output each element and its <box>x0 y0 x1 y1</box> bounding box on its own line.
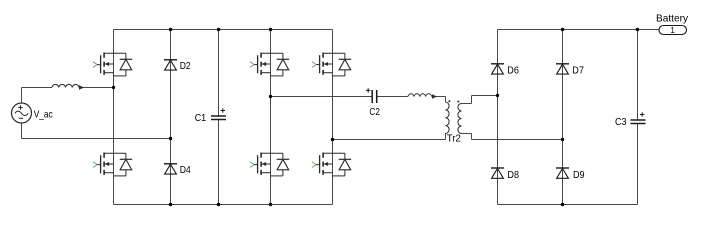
diode D9 <box>556 168 569 178</box>
wire: V_ac top lead <box>22 88 53 104</box>
svg-text:Battery: Battery <box>656 13 689 25</box>
node: H-bridge left leg top <box>269 28 272 31</box>
node: inductor to MOSFET midpoint <box>112 86 115 89</box>
wire: V_ac bottom lead to diode leg midpoint <box>22 123 171 139</box>
svg-text:D2: D2 <box>180 60 191 72</box>
wire: secondary top to rectifier left leg <box>462 96 498 104</box>
node: D9 bottom <box>561 203 564 206</box>
wire: inductor L1 to MOSFET leg <box>79 87 114 89</box>
svg-text:V_ac: V_ac <box>34 108 53 120</box>
battery port connector <box>659 26 687 35</box>
node: V_ac return to diode midpoint <box>169 137 172 140</box>
wire: C3 column upper <box>637 30 639 121</box>
wire: H-bridge right midpoint to primary bottom <box>333 133 446 140</box>
wire: secondary bottom to rectifier right leg <box>462 134 563 140</box>
svg-text:C2: C2 <box>369 106 380 118</box>
wire: input bridge top rail <box>114 29 333 31</box>
wire: C1 column upper <box>218 30 220 117</box>
svg-text:D9: D9 <box>573 169 585 181</box>
capacitor C3 <box>631 120 646 124</box>
svg-text:D8: D8 <box>507 169 519 181</box>
transformer Tr2 primary winding <box>445 102 449 133</box>
diode D7 <box>556 64 569 74</box>
node: D2 top <box>169 28 172 31</box>
MOSFET M1 (input leg top) <box>93 53 132 76</box>
diode D8 <box>491 168 504 178</box>
wire: D6/D8 leg column <box>497 30 499 205</box>
node: D7 top <box>561 28 564 31</box>
node: C3 top <box>636 28 639 31</box>
series inductor L2 <box>408 94 432 97</box>
diode D4 <box>164 164 177 174</box>
node: C1 bottom <box>217 203 220 206</box>
series inductor L2 arrow <box>432 94 437 99</box>
wire: D7/D9 leg column <box>562 30 564 205</box>
AC source V_ac <box>12 103 32 123</box>
wire: D2/D4 leg column <box>170 30 172 205</box>
capacitor C3 plus <box>640 112 644 116</box>
diode D2 <box>164 60 177 70</box>
wire: H-bridge left leg column <box>270 30 272 205</box>
node: secondary top to D6/D8 midpoint <box>496 94 499 97</box>
node: D4 bottom <box>169 203 172 206</box>
wire: H-bridge right leg column <box>332 30 334 205</box>
node: secondary bottom to D7/D9 midpoint <box>561 138 564 141</box>
inductor L1 arrow <box>79 85 84 90</box>
MOSFET M5 (H-bridge bottom left) <box>250 153 289 176</box>
wire: rectifier top rail to battery <box>498 29 660 31</box>
MOSFET M4 (H-bridge top right) <box>312 53 351 76</box>
wire: MOSFET leg column <box>113 30 115 205</box>
wire: C1 column lower <box>218 120 220 205</box>
svg-text:1: 1 <box>670 26 675 35</box>
node: H-bridge right midpoint <box>331 138 334 141</box>
svg-text:D4: D4 <box>180 164 191 176</box>
wire: input bridge bottom rail <box>114 204 333 206</box>
wire: inductor to transformer primary <box>435 97 446 103</box>
diode D6 <box>491 64 504 74</box>
capacitor C1 <box>211 116 226 120</box>
wire: C3 column lower <box>637 124 639 205</box>
MOSFET M2 (input leg bottom) <box>93 153 132 176</box>
capacitor C1 plus <box>221 108 225 112</box>
capacitor C2 plus <box>366 88 370 92</box>
svg-text:C1: C1 <box>195 112 207 124</box>
MOSFET M3 (H-bridge top left) <box>250 53 289 76</box>
wire: H-bridge left midpoint to C2 <box>271 96 373 98</box>
svg-text:D6: D6 <box>507 64 519 76</box>
node: C1 top <box>217 28 220 31</box>
svg-text:C3: C3 <box>615 116 627 128</box>
transformer Tr2 secondary phase dot <box>457 101 459 103</box>
MOSFET M6 (H-bridge bottom right) <box>312 153 351 176</box>
wire: C2 to series inductor <box>377 96 408 98</box>
transformer Tr2 secondary winding <box>458 104 462 134</box>
transformer Tr2 primary phase dot <box>448 100 450 102</box>
inductor L1 <box>52 84 79 87</box>
svg-text:D7: D7 <box>572 64 584 76</box>
node: H-bridge left leg bottom <box>269 203 272 206</box>
capacitor C2 <box>372 90 377 103</box>
svg-text:Tr2: Tr2 <box>447 133 461 145</box>
node: H-bridge left midpoint <box>269 95 272 98</box>
wire: rectifier bottom rail <box>498 204 638 206</box>
